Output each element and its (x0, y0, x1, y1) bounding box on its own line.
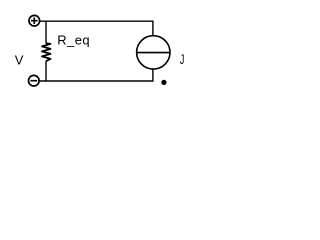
voltage source + terminal (29, 15, 40, 26)
svg-text:V: V (15, 53, 24, 68)
voltage source - terminal (29, 75, 40, 86)
wire top horizontal from + terminal to current source top (40, 21, 153, 35)
wire bottom horizontal from - terminal to current source bottom (39, 69, 152, 81)
resistor R_eq zigzag (42, 43, 51, 61)
wire resistor branch top lead (45, 21, 47, 43)
svg-text:J: J (180, 51, 185, 67)
svg-text:R_eq: R_eq (57, 33, 90, 48)
wire resistor branch bottom lead (45, 61, 47, 81)
current source J (136, 36, 170, 69)
polarity dot (161, 80, 166, 85)
